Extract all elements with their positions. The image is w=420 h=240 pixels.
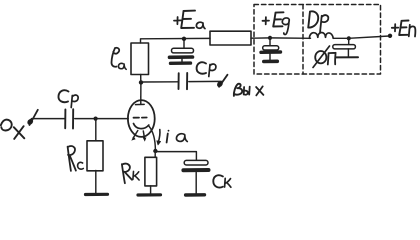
wire cathode junction to Ck — [157, 152, 196, 161]
node cathode junction — [153, 149, 157, 153]
label Cp (input) — [58, 90, 78, 107]
wire Cp to grid junction and to triode grid — [75, 118, 128, 120]
ground below Ck — [186, 193, 205, 197]
node anode junction — [139, 80, 143, 84]
label Вх — [1, 120, 25, 139]
node +Eэ — [268, 36, 272, 40]
resistor Rc — [87, 141, 103, 171]
node after choke — [347, 36, 351, 40]
input arrow — [28, 110, 38, 125]
wire choke to +Eн — [333, 36, 389, 38]
dashed box Фп — [254, 5, 381, 75]
triode anode bar — [135, 97, 144, 105]
ground at +Ea cap — [171, 61, 191, 65]
label Ck — [213, 175, 231, 187]
wire Rk to ground — [150, 186, 152, 194]
label +Eэ — [263, 12, 290, 34]
inductor Дp — [309, 32, 333, 38]
capacitor filter 1 top plate — [263, 46, 279, 50]
ground below Rc — [86, 193, 108, 196]
label Фп — [313, 46, 336, 68]
wire cathode to junction — [149, 126, 156, 150]
capacitor filter 2 top plate — [333, 45, 356, 49]
heater lead right with arrowhead — [143, 131, 147, 142]
capacitor filter 2 lead to bottom plate — [347, 49, 349, 57]
wire anode up to junction — [140, 83, 142, 98]
node +Eн — [388, 34, 392, 38]
capacitor Cp (input) — [65, 109, 73, 128]
triode grid (dashes) — [134, 117, 147, 119]
wire Ra top to +Ea rail — [141, 38, 211, 43]
capacitor filter 1 bottom plate — [261, 50, 281, 54]
triode VL envelope — [128, 100, 155, 137]
wire Cp output to output terminal — [189, 80, 222, 82]
wire +Eэ junction to choke — [270, 37, 311, 39]
dashed divider — [302, 5, 304, 75]
ground below Rk — [138, 193, 161, 196]
wire Ck to ground — [195, 172, 197, 193]
wire Rc to ground — [95, 171, 97, 194]
capacitor Ck top plate — [184, 160, 208, 165]
capacitor at +Ea bottom plate — [170, 55, 193, 59]
label Вых — [234, 84, 264, 96]
wire junction down to Rc — [95, 119, 97, 141]
label Rk — [122, 164, 139, 184]
label Cp (output) — [197, 62, 216, 76]
capacitor filter 2 bottom plate (ground line) — [335, 56, 358, 58]
wire Rf to filter box — [251, 37, 270, 39]
resistor Rf (filter, horizontal) — [210, 31, 251, 45]
label ia with current arrow — [157, 130, 188, 145]
lead to ground at +Ea cap — [181, 59, 183, 62]
label +Eн — [392, 21, 416, 37]
heater lead left with arrowhead — [131, 131, 138, 141]
triode cathode arc — [134, 124, 149, 129]
label Ra — [111, 48, 126, 69]
wire input to Cp — [32, 118, 65, 120]
lead to ground filter 1 — [269, 54, 271, 60]
ground filter 1 — [264, 59, 278, 63]
wire junction down to Rk — [154, 151, 156, 157]
node grid junction — [94, 117, 98, 121]
label Rc — [68, 146, 84, 171]
capacitor Cp (output) — [179, 73, 188, 89]
node +Ea — [182, 37, 186, 41]
resistor Rk — [145, 157, 157, 186]
capacitor filter 1 lead — [269, 39, 271, 45]
wire Ra bottom to anode junction — [140, 75, 142, 83]
label Дp — [308, 11, 328, 32]
capacitor at +Ea (decoupling) top plate — [172, 41, 194, 53]
output arrow — [218, 75, 228, 87]
resistor Ra — [131, 43, 149, 75]
label +Ea — [174, 11, 205, 29]
capacitor filter 2 lead — [348, 39, 350, 44]
wire anode junction to Cp output — [143, 81, 178, 83]
capacitor Ck bottom plate — [183, 168, 208, 172]
